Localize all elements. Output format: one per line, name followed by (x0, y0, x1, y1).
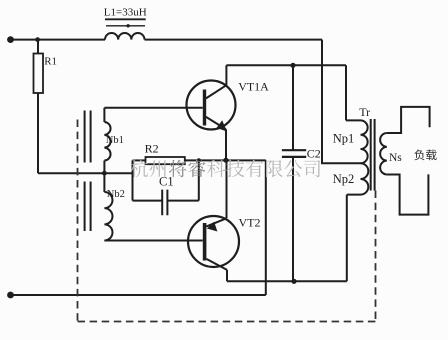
winding Ns (380, 133, 387, 174)
svg-text:Nb1: Nb1 (106, 135, 124, 146)
winding Np2 (347, 163, 369, 194)
node C2 top junction (290, 63, 295, 68)
wire VT1A collector rail (226, 65, 346, 120)
resistor R2 (133, 159, 146, 161)
wire Ns bottom lead to load (387, 174, 429, 214)
svg-text:Np1: Np1 (333, 131, 355, 145)
wire emitter return to bottom rail (11, 160, 266, 295)
node emitter junction (223, 158, 228, 163)
watermark text (130, 160, 148, 178)
svg-text:VT1A: VT1A (238, 79, 269, 93)
svg-text:R2: R2 (145, 142, 159, 156)
transistor VT1A emitter arrow (217, 120, 227, 131)
svg-text:R1: R1 (44, 55, 57, 67)
transistor VT2 emitter arrow (207, 222, 218, 232)
node C2 bottom junction (291, 279, 296, 284)
wire VT2 base (104, 240, 202, 242)
node R1 top junction (35, 37, 40, 42)
svg-text:Tr: Tr (359, 105, 370, 119)
dashed enclosure border (78, 120, 376, 322)
label load (fuzai) (414, 149, 424, 160)
svg-text:Np2: Np2 (333, 172, 355, 186)
capacitor C2 (292, 65, 294, 281)
transistor VT2 (188, 216, 239, 267)
wire R2/C1 left node (132, 160, 134, 200)
transformer core right (371, 119, 375, 191)
wire C1 right riser (198, 160, 200, 200)
node input - terminal (7, 292, 14, 299)
svg-text:C1: C1 (159, 175, 174, 189)
transistor VT1A base bar (203, 90, 206, 126)
transistor VT2 base bar (203, 223, 207, 261)
node C1 riser junction (197, 158, 201, 162)
svg-text:L1=33uH: L1=33uH (104, 7, 147, 19)
node input + terminal (7, 36, 14, 43)
transistor VT1A (187, 81, 236, 130)
svg-text:VT2: VT2 (239, 215, 261, 229)
wire top-rail drop to primary center tap (322, 40, 361, 164)
wire VT1A base (104, 107, 202, 109)
wire Ns top lead to load (387, 107, 430, 133)
transformer core left (85, 111, 91, 232)
winding Nb1 (104, 108, 110, 161)
svg-text:C2: C2 (307, 146, 321, 160)
winding Nb2 (104, 161, 112, 241)
node center-tap junction (102, 171, 107, 176)
svg-text:Nb2: Nb2 (107, 189, 125, 200)
wire emitter node (R2 right to down-corner) (185, 159, 266, 161)
winding Np1 (346, 120, 368, 163)
svg-text:Ns: Ns (389, 152, 402, 164)
wire center-tap horizontal (38, 172, 133, 174)
resistor R1 (37, 40, 39, 54)
inductor L1 coil (105, 33, 145, 40)
capacitor C1 (133, 200, 199, 202)
wire VT2 collector rail (227, 195, 347, 282)
wire top rail (11, 39, 323, 41)
